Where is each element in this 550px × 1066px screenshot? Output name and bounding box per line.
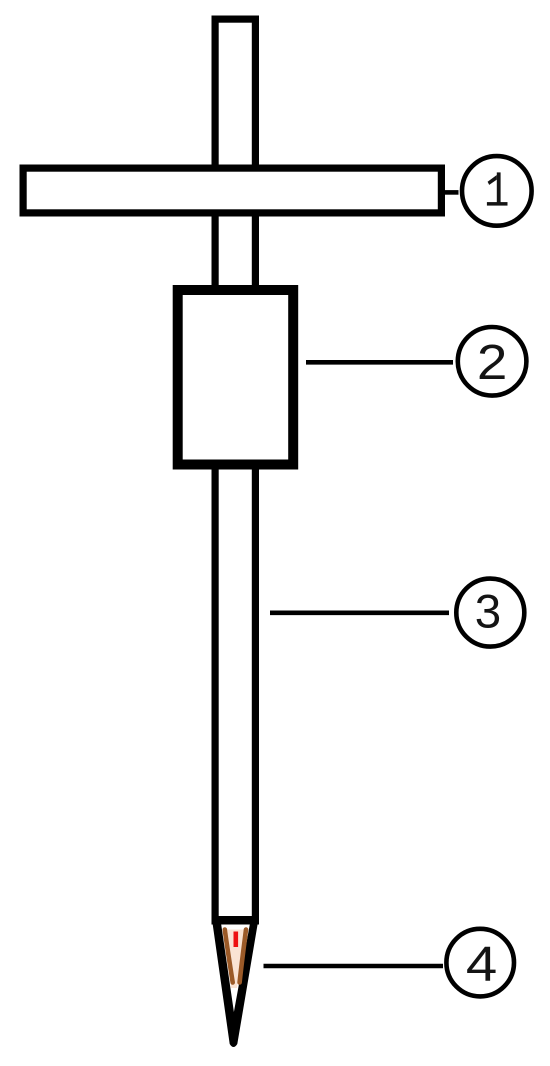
svg-text:2: 2 <box>477 336 508 391</box>
svg-text:3: 3 <box>475 586 501 639</box>
svg-text:4: 4 <box>466 937 497 992</box>
